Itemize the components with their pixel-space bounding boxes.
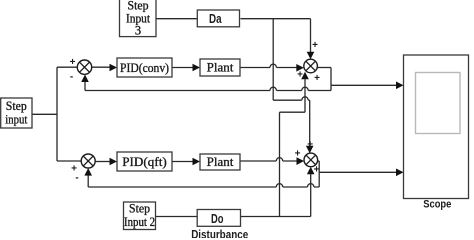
svg-text:+: + (314, 165, 320, 176)
svg-text:+: + (70, 57, 76, 68)
svg-text:Step: Step (6, 99, 27, 113)
svg-text:Plant: Plant (207, 60, 234, 75)
svg-text:Plant: Plant (207, 154, 234, 169)
svg-text:-: - (75, 173, 78, 184)
svg-text:+: + (312, 40, 318, 51)
svg-text:PID(qft): PID(qft) (122, 154, 167, 169)
svg-text:Da: Da (209, 12, 222, 26)
svg-text:Disturbance: Disturbance (191, 230, 248, 238)
svg-text:Step: Step (128, 0, 149, 12)
svg-text:input: input (5, 113, 27, 127)
svg-text:3: 3 (135, 24, 141, 38)
svg-text:+: + (297, 70, 303, 81)
svg-text:+: + (307, 139, 313, 150)
svg-text:+: + (295, 148, 301, 159)
svg-text:Scope: Scope (423, 199, 451, 211)
svg-text:-: - (70, 72, 73, 83)
svg-text:+: + (314, 73, 320, 84)
svg-text:Do: Do (211, 212, 224, 226)
svg-text:PID(conv): PID(conv) (120, 60, 169, 75)
svg-text:Step: Step (129, 202, 150, 216)
svg-text:Input 2: Input 2 (124, 215, 155, 229)
